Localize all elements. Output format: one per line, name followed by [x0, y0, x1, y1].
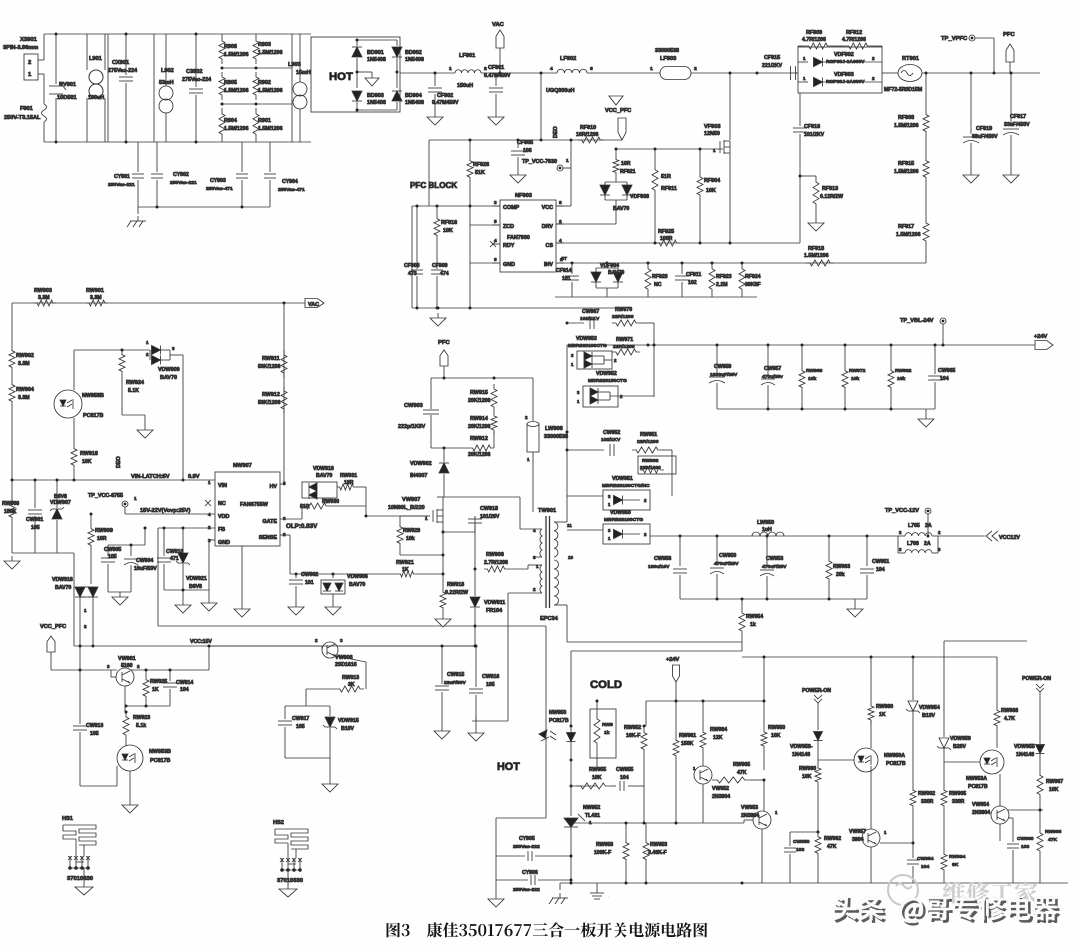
resistor RF924	[739, 263, 745, 295]
svg-text:470uF/25V: 470uF/25V	[714, 561, 739, 567]
resistor RW951c boxed	[590, 709, 616, 758]
svg-text:R903: R903	[258, 42, 271, 48]
svg-text:RW955: RW955	[589, 767, 606, 773]
svg-text:VW954: VW954	[972, 802, 989, 808]
wire base node	[305, 689, 307, 706]
snubber CW952 RW951	[567, 449, 604, 451]
svg-text:150K: 150K	[4, 509, 17, 515]
resistor RF916	[434, 214, 440, 240]
svg-text:GND: GND	[503, 262, 515, 268]
svg-text:RW980: RW980	[876, 704, 893, 710]
svg-text:CX901: CX901	[112, 60, 129, 66]
varistor RV901	[55, 34, 57, 84]
resistor RW963	[828, 536, 830, 556]
wire cy ground rail	[138, 206, 270, 208]
svg-text:222p/1K6V: 222p/1K6V	[398, 424, 426, 430]
resistor RW966	[1039, 810, 1041, 828]
resistor RW954	[741, 598, 744, 601]
svg-text:250V-T3.15AL: 250V-T3.15AL	[4, 115, 41, 121]
svg-text:L901: L901	[89, 56, 102, 62]
svg-text:105: 105	[31, 525, 40, 531]
wire vcc15 rail	[51, 669, 117, 671]
svg-text:RW914: RW914	[470, 416, 488, 422]
svg-text:2N3904: 2N3904	[712, 794, 730, 800]
capacitor CF917	[1010, 73, 1012, 126]
svg-text:RW903: RW903	[34, 288, 52, 294]
svg-text:PC817B: PC817B	[886, 761, 906, 767]
wire emitter	[124, 686, 126, 712]
svg-text:CF919: CF919	[976, 126, 992, 132]
svg-text:20K/1206: 20K/1206	[468, 452, 491, 458]
svg-text:RW972: RW972	[849, 368, 866, 374]
svg-text:CF901: CF901	[488, 65, 504, 71]
svg-text:HS2: HS2	[273, 820, 284, 826]
svg-text:MBRS20150CTG: MBRS20150CTG	[588, 378, 627, 384]
svg-text:BD904: BD904	[405, 93, 422, 99]
svg-text:104: 104	[180, 687, 189, 693]
svg-text:CW960: CW960	[1017, 836, 1034, 842]
capacitor CF919	[970, 73, 972, 134]
svg-text:VIN: VIN	[218, 483, 227, 489]
svg-text:LF903: LF903	[660, 56, 676, 62]
resistor RW924	[119, 350, 125, 376]
resistor RW925	[145, 670, 147, 675]
diode VDW902	[443, 447, 446, 450]
resistor RW967	[1037, 770, 1043, 800]
svg-text:4.7K: 4.7K	[1004, 716, 1015, 722]
svg-text:6: 6	[494, 257, 497, 263]
resistor RW913	[336, 686, 364, 692]
svg-text:47K: 47K	[827, 844, 837, 850]
svg-text:VDW959: VDW959	[950, 736, 971, 742]
resistor RW953	[645, 823, 647, 838]
resistor RF910	[578, 137, 604, 143]
resistor RW908	[9, 496, 15, 522]
resistor RW902c	[910, 786, 916, 810]
svg-text:12K: 12K	[713, 735, 723, 741]
svg-text:RW908: RW908	[2, 501, 19, 507]
svg-text:BAV70: BAV70	[608, 270, 624, 276]
resistor RW994	[941, 850, 947, 874]
wire output rail VPFC	[922, 72, 1040, 74]
wire VDW909 out	[182, 355, 184, 480]
svg-text:RW911: RW911	[262, 356, 280, 362]
wire VCC PFC feed	[429, 139, 622, 141]
svg-text:CY905: CY905	[519, 836, 535, 842]
svg-text:DRV: DRV	[542, 224, 554, 230]
svg-text:4.7R/1206: 4.7R/1206	[802, 37, 826, 43]
resistor RW960	[817, 760, 819, 764]
capacitor CW914	[169, 670, 171, 681]
svg-text:250Vac-471: 250Vac-471	[278, 187, 305, 193]
svg-text:CF902: CF902	[437, 93, 453, 99]
svg-text:8: 8	[559, 200, 562, 206]
svg-text:RW963: RW963	[833, 564, 850, 570]
svg-text:CW902: CW902	[301, 572, 318, 578]
svg-text:10k: 10k	[808, 376, 817, 382]
ground CF919	[970, 170, 972, 175]
svg-text:RGP30J-3A600V: RGP30J-3A600V	[826, 59, 865, 65]
svg-text:10k: 10k	[897, 376, 906, 382]
wire bottom rail pfc	[555, 296, 757, 298]
ground RW918b	[442, 612, 444, 614]
svg-text:RW906: RW906	[486, 552, 504, 558]
svg-text:RW966: RW966	[1045, 829, 1062, 835]
svg-text:RW967: RW967	[1046, 779, 1063, 785]
resistor RF917	[925, 182, 927, 218]
svg-text:TP_VCC-7630: TP_VCC-7630	[522, 159, 557, 165]
wire left stack to vcc rail	[73, 553, 75, 646]
svg-text:12N50: 12N50	[704, 131, 720, 137]
svg-text:275Vac-224: 275Vac-224	[108, 68, 137, 74]
svg-text:2: 2	[484, 66, 487, 72]
ground CF901	[495, 112, 497, 117]
svg-text:0.22R/2W: 0.22R/2W	[445, 590, 468, 596]
svg-text:NW950: NW950	[549, 710, 566, 716]
svg-text:474: 474	[440, 271, 449, 277]
svg-text:VAC: VAC	[492, 22, 505, 28]
ground 12v	[854, 599, 856, 604]
svg-text:CW953: CW953	[766, 556, 783, 562]
wire vw957 bottom	[870, 847, 872, 883]
svg-text:B6V8: B6V8	[189, 584, 202, 590]
wire 24v rail	[567, 344, 1040, 346]
svg-text:CW915: CW915	[447, 672, 464, 678]
svg-text:RW918: RW918	[80, 451, 98, 457]
svg-text:RW904: RW904	[16, 387, 34, 393]
svg-text:UGQ300uH: UGQ300uH	[546, 88, 575, 94]
svg-text:1.5M/1206: 1.5M/1206	[894, 123, 919, 129]
svg-text:B26V: B26V	[953, 744, 966, 750]
svg-text:DEO: DEO	[116, 456, 122, 468]
svg-text:BAV70: BAV70	[316, 473, 332, 479]
diode VDW911	[474, 568, 477, 571]
wire input top rail	[44, 33, 311, 35]
svg-text:1N4148: 1N4148	[1016, 752, 1034, 758]
svg-text:RF911: RF911	[661, 186, 677, 192]
wire vdw916 outputs	[79, 597, 81, 646]
resistor RW923	[123, 712, 129, 740]
diode BD904	[392, 91, 402, 101]
resistor RW918	[71, 444, 77, 470]
svg-text:VDW953: VDW953	[576, 336, 597, 342]
svg-text:C3902: C3902	[186, 69, 203, 75]
svg-text:1.5M/1206: 1.5M/1206	[804, 253, 829, 259]
svg-text:RW924: RW924	[126, 380, 144, 386]
svg-text:RW9: RW9	[602, 722, 613, 728]
svg-text:1N5408: 1N5408	[405, 57, 424, 63]
diode VDF902	[798, 61, 808, 63]
svg-text:LF902: LF902	[560, 56, 576, 62]
svg-text:180u/16V: 180u/16V	[648, 564, 670, 570]
svg-text:68uF/450V: 68uF/450V	[972, 134, 998, 140]
svg-text:105: 105	[296, 724, 305, 730]
svg-text:CW957: CW957	[764, 366, 781, 372]
svg-text:1.5M/1206: 1.5M/1206	[224, 126, 249, 132]
ground CF902	[434, 112, 436, 117]
svg-text:VDW902: VDW902	[410, 461, 432, 467]
svg-text:1.5M/1206: 1.5M/1206	[896, 232, 921, 238]
svg-text:POWER-ON: POWER-ON	[1022, 676, 1051, 682]
capacitor CW960	[1009, 817, 1013, 819]
resistor RW955	[576, 783, 610, 789]
wire resistor ties	[221, 34, 223, 36]
svg-text:15V-22V(Vovp:25V): 15V-22V(Vovp:25V)	[140, 508, 191, 514]
svg-text:VCC_PFC: VCC_PFC	[605, 108, 631, 114]
svg-text:X3901: X3901	[20, 37, 38, 43]
svg-text:150K: 150K	[681, 741, 694, 747]
bridge rectifier box HOT	[311, 37, 400, 112]
svg-text:103: 103	[796, 847, 805, 853]
svg-text:33000538: 33000538	[655, 48, 679, 54]
svg-text:TW901: TW901	[538, 508, 556, 514]
svg-text:1K: 1K	[879, 712, 886, 718]
wire VCC pin	[570, 140, 572, 206]
svg-text:102/1KV: 102/1KV	[601, 437, 621, 443]
wire input bottom rail	[44, 141, 311, 143]
capacitor C3902	[195, 34, 197, 87]
svg-text:RF912: RF912	[846, 30, 862, 36]
svg-text:RF921: RF921	[620, 169, 636, 175]
wire cw910 to gnd pin	[164, 589, 209, 591]
svg-text:105: 105	[90, 731, 99, 737]
svg-text:NW950A: NW950A	[884, 753, 905, 759]
svg-text:.5T: .5T	[560, 256, 567, 262]
svg-text:RW931: RW931	[340, 473, 357, 479]
ground CW915	[441, 726, 443, 731]
capacitor CY905	[496, 817, 546, 819]
svg-text:1N5408: 1N5408	[367, 57, 386, 63]
svg-text:10K: 10K	[802, 774, 812, 780]
resistor RF923	[709, 263, 715, 295]
resistor R904	[219, 108, 225, 140]
svg-text:250Vac-222: 250Vac-222	[513, 844, 540, 850]
wire CS rail	[556, 242, 800, 244]
wire drv chain	[616, 148, 723, 150]
svg-text:470uF/25V: 470uF/25V	[762, 564, 787, 570]
wire section divider	[107, 34, 109, 142]
resistor RW958	[625, 823, 627, 838]
svg-text:1.5M/1206: 1.5M/1206	[258, 126, 283, 132]
svg-text:CW904: CW904	[136, 558, 153, 564]
svg-text:PFC: PFC	[1003, 32, 1015, 38]
wire bridge internals	[357, 39, 397, 41]
svg-text:22R/1206: 22R/1206	[637, 439, 659, 445]
svg-text:HOT: HOT	[329, 71, 353, 83]
svg-text:10R/1206: 10R/1206	[576, 132, 599, 138]
capacitor CF909	[431, 269, 443, 271]
svg-text:33uF/450V: 33uF/450V	[1004, 122, 1030, 128]
svg-text:PFC BLOCK: PFC BLOCK	[410, 181, 457, 190]
resistor RW901	[86, 300, 108, 306]
svg-text:22R/1206: 22R/1206	[613, 344, 635, 350]
svg-text:MBRB20100CTG/NC: MBRB20100CTG/NC	[602, 483, 650, 489]
capacitor CW904	[130, 545, 132, 556]
heatsink HS1 pins	[69, 856, 71, 868]
capacitor CY906	[530, 875, 532, 885]
svg-text:B6V8: B6V8	[54, 494, 67, 500]
svg-text:SENSE: SENSE	[259, 535, 278, 541]
svg-text:2N3904: 2N3904	[972, 810, 990, 816]
capacitor CF914	[571, 263, 573, 274]
wire source sense	[442, 554, 445, 557]
svg-text:RW908: RW908	[642, 458, 659, 464]
capacitor CW953	[766, 536, 768, 567]
capacitor CW918	[442, 531, 445, 534]
wire vac top rail	[12, 302, 306, 304]
wire FB ground rail	[158, 625, 546, 627]
svg-text:CF909: CF909	[432, 263, 448, 269]
svg-text:RW909: RW909	[95, 528, 113, 534]
svg-text:51R: 51R	[661, 174, 671, 180]
svg-text:RW902: RW902	[16, 353, 34, 359]
svg-text:RW969: RW969	[806, 368, 823, 374]
ground CW916	[475, 728, 477, 733]
svg-text:104: 104	[921, 864, 930, 870]
svg-text:VW907: VW907	[402, 497, 420, 503]
ground above VCC_PFC	[609, 96, 623, 105]
snubber RW906	[474, 532, 476, 569]
wire secondary pins	[554, 521, 567, 523]
svg-text:NW952: NW952	[583, 805, 600, 811]
svg-text:VDW911: VDW911	[484, 600, 505, 606]
svg-text:RW960: RW960	[799, 766, 816, 772]
resistor RW969	[801, 345, 803, 366]
capacitor CF908	[416, 206, 418, 269]
svg-text:R902: R902	[258, 80, 271, 86]
svg-text:INV: INV	[544, 262, 553, 268]
svg-text:RW982: RW982	[895, 368, 912, 374]
svg-text:RW918: RW918	[447, 582, 464, 588]
svg-text:CF917: CF917	[1010, 114, 1026, 120]
capacitor CF901	[495, 73, 497, 86]
capacitor CW902	[295, 573, 298, 576]
svg-text:LW950: LW950	[757, 520, 774, 526]
svg-text:1.5M/1206: 1.5M/1206	[894, 169, 919, 175]
svg-text:CW954: CW954	[917, 856, 934, 862]
capacitor CW917	[284, 706, 286, 719]
svg-text:1000uF/35V: 1000uF/35V	[710, 372, 738, 378]
resistor RW918b	[442, 574, 444, 588]
diode pair VDF904	[606, 263, 608, 268]
svg-text:L705: L705	[908, 523, 920, 529]
wire GND pin	[470, 262, 500, 264]
svg-text:RW905: RW905	[949, 791, 966, 797]
resistor RW984	[702, 701, 704, 728]
resistor RW903	[34, 300, 56, 306]
svg-text:5.1K: 5.1K	[128, 388, 139, 394]
svg-text:20k: 20k	[836, 572, 845, 578]
resistor RF926	[469, 140, 471, 156]
resistor R908	[219, 36, 225, 64]
svg-text:1N5408: 1N5408	[405, 100, 424, 106]
optocoupler NW953B	[117, 745, 143, 771]
capacitor CF911	[681, 263, 683, 274]
svg-text:51K: 51K	[475, 170, 485, 176]
svg-text:10K: 10K	[771, 733, 781, 739]
svg-text:MBRS20100CTG: MBRS20100CTG	[568, 343, 607, 349]
svg-text:101: 101	[562, 276, 571, 282]
svg-text:VCC:15V: VCC:15V	[190, 639, 212, 645]
svg-text:100uH: 100uH	[88, 95, 104, 101]
svg-text:+24V: +24V	[1034, 334, 1048, 340]
svg-text:BAV70: BAV70	[55, 585, 71, 591]
svg-text:4: 4	[550, 66, 553, 72]
svg-text:CW955: CW955	[616, 767, 633, 773]
svg-text:DEO: DEO	[553, 126, 559, 138]
svg-text:RV901: RV901	[59, 82, 76, 88]
svg-text:NF903: NF903	[515, 193, 532, 199]
svg-text:RW912: RW912	[262, 392, 280, 398]
snubber CW967 RW970	[567, 322, 584, 324]
svg-text:RF916: RF916	[441, 220, 457, 226]
svg-text:CW965: CW965	[938, 368, 955, 374]
svg-text:BD901: BD901	[367, 50, 384, 56]
wire cold mid rail	[571, 822, 744, 824]
wire vw954 emitter	[999, 824, 1001, 841]
svg-text:CW967: CW967	[582, 309, 599, 315]
svg-text:3PIN-3.96mm: 3PIN-3.96mm	[3, 45, 38, 51]
resistor RF921	[613, 156, 619, 176]
svg-text:VDW950: VDW950	[610, 510, 631, 516]
wire cold rail3	[944, 640, 1027, 642]
svg-text:RW984: RW984	[710, 727, 727, 733]
svg-text:250Vac-222: 250Vac-222	[513, 887, 540, 893]
svg-text:R901: R901	[258, 118, 271, 124]
svg-text:1.5M/1206: 1.5M/1206	[258, 88, 283, 94]
svg-text:330R: 330R	[921, 799, 934, 805]
wire 24v bottom rail	[717, 408, 935, 410]
svg-text:B18V: B18V	[341, 726, 354, 732]
wire vw953 bottom	[761, 829, 763, 883]
svg-text:RF925: RF925	[658, 229, 674, 235]
svg-text:RF924: RF924	[745, 274, 761, 280]
diode BD901	[356, 40, 358, 46]
svg-text:PC817B: PC817B	[83, 413, 103, 419]
watermark faint	[943, 881, 1038, 904]
ground IC	[209, 539, 215, 541]
resistor RF925	[656, 240, 680, 246]
svg-text:101: 101	[305, 580, 314, 586]
svg-text:4.7R/1206: 4.7R/1206	[842, 37, 866, 43]
svg-text:ZCD: ZCD	[503, 224, 514, 230]
ground GND pin	[208, 540, 210, 590]
capacitor CW905	[107, 545, 109, 556]
svg-text:1k: 1k	[604, 730, 610, 736]
svg-text:10D561: 10D561	[57, 95, 77, 101]
svg-text:104: 104	[620, 775, 629, 781]
svg-text:VDF908: VDF908	[630, 194, 649, 200]
svg-text:R908: R908	[224, 44, 237, 50]
svg-text:RW921: RW921	[396, 560, 414, 566]
wire cw904 drop	[144, 528, 146, 545]
capacitor CW916	[475, 646, 477, 687]
wire cold bottom rail	[560, 882, 1068, 884]
wire secondary feed	[566, 345, 568, 512]
svg-text:RF923: RF923	[716, 274, 732, 280]
svg-text:10: 10	[568, 555, 574, 560]
wire sense	[280, 534, 290, 536]
svg-text:105: 105	[108, 554, 117, 560]
svg-text:105: 105	[486, 682, 495, 688]
svg-text:RF913: RF913	[822, 186, 838, 192]
svg-text:56K/1206: 56K/1206	[258, 364, 281, 370]
resistor RF908	[925, 73, 927, 110]
svg-text:100R: 100R	[660, 236, 673, 242]
resistor RW972	[844, 345, 846, 366]
wire fb rail down to cy caps	[545, 626, 547, 818]
ground CF905	[517, 170, 519, 175]
